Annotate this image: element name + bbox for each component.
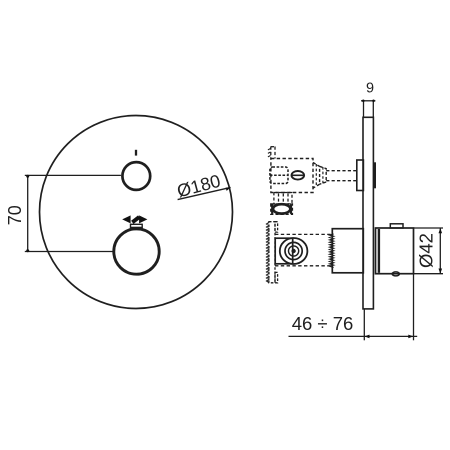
upper valve: bonnet ribs <box>316 164 323 187</box>
dimension Ø42: extension line bottom <box>414 273 444 275</box>
dimension 70: arrow down <box>26 249 29 252</box>
large knob bottom notch <box>134 274 140 276</box>
dimension 46-76: extension line left (from plate) <box>363 309 365 340</box>
lower valve: cartridge cap block <box>275 238 293 264</box>
dimension Ø42: dimension line <box>439 228 441 274</box>
top small knob <box>122 162 150 190</box>
lower knob body (visible) <box>376 228 414 274</box>
svg-text:Ø180: Ø180 <box>175 171 223 202</box>
svg-text:70: 70 <box>5 205 25 225</box>
upper valve: main body (hidden) <box>271 159 313 193</box>
upper valve: stub serration <box>268 149 271 157</box>
upper valve: bottom port nut dark sides <box>272 204 291 214</box>
upper valve: bottom port ring <box>273 204 290 213</box>
lower valve: cartridge body bottom line (hidden) <box>275 265 332 267</box>
dimension 70: extension line bottom <box>25 251 113 253</box>
upper valve: bottom port neck (hidden) <box>274 193 292 204</box>
svg-text:46 ÷ 76: 46 ÷ 76 <box>292 313 354 334</box>
wall plate side view <box>363 117 373 309</box>
upper valve: centre union ellipse (hidden) <box>292 171 305 180</box>
lower valve: cartridge body top line (hidden) <box>275 233 332 235</box>
large knob top tab <box>131 224 143 229</box>
upper valve: left hex nut (hidden) <box>270 167 288 184</box>
lower valve: cap outer ellipse <box>280 238 308 264</box>
upper valve: spindle (hidden) <box>326 171 357 181</box>
dimension Ø180: leader arrowhead <box>226 187 231 191</box>
lower knob bottom bump <box>392 272 399 276</box>
dimension Ø42: arrows <box>439 228 443 274</box>
lower valve: extension tube (visible) <box>332 229 363 273</box>
top knob seen from side on plate <box>373 162 376 188</box>
dimension 9: extension lines <box>364 101 374 118</box>
upper valve: wall flange (visible) <box>357 160 364 191</box>
dimension 46-76: arrows <box>364 335 413 339</box>
top knob index tick <box>135 150 137 156</box>
svg-text:9: 9 <box>366 81 374 97</box>
dimension 70: arrow up <box>26 175 29 178</box>
upper valve: bonnet step 1 (hidden) <box>313 163 320 189</box>
upper valve: bonnet step 2 (hidden) <box>320 166 327 184</box>
lower valve: cap middle circle <box>285 242 302 259</box>
lower valve: thread coil <box>330 234 334 268</box>
dimension 46-76: extension line right (from knob) <box>413 274 415 341</box>
dimension 9: arrows <box>362 100 375 103</box>
upper valve: bottom port nut (hidden) <box>271 204 293 214</box>
bottom large knob <box>114 229 159 274</box>
temperature arrows symbol <box>122 215 147 224</box>
lower valve: cap inner circle <box>289 246 299 256</box>
dimension 70: dimension line <box>27 175 29 251</box>
lower valve: cap centre dot <box>291 249 295 253</box>
dimension Ø180: leader underline <box>178 187 231 199</box>
svg-text:Ø42: Ø42 <box>416 233 437 268</box>
front plate circle Ø180 <box>40 116 233 309</box>
upper valve: top inlet stub (hidden) <box>271 147 275 159</box>
dimension 46-76: dimension line <box>289 335 418 337</box>
lower valve: mounting flange (hidden) <box>269 222 278 283</box>
lower knob inner shading line <box>378 229 380 273</box>
lower knob top clip <box>390 224 403 228</box>
dimension 70: extension line top <box>25 174 121 176</box>
dimension 9: dimension line <box>361 100 375 102</box>
lower valve: flange serration <box>267 223 269 283</box>
dimension Ø42: extension line top <box>414 227 444 229</box>
